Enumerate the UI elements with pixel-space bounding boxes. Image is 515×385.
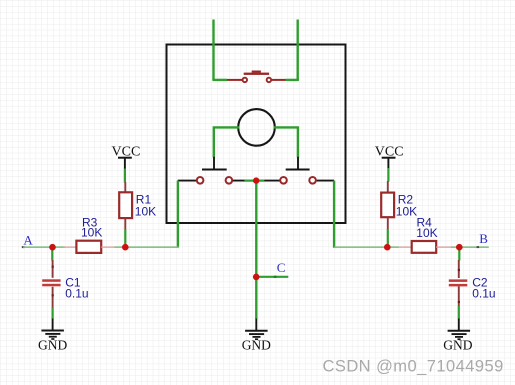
svg-text:0.1u: 0.1u (472, 286, 495, 300)
wire VCC to R1 (124, 169, 126, 183)
wire junction to encoder pin A (128, 246, 179, 248)
svg-text:GND: GND (443, 338, 472, 353)
svg-text:10K: 10K (396, 204, 417, 218)
wire junction to R3 (55, 246, 65, 248)
resistor R2 body (381, 193, 394, 218)
contact pin circle 4 (309, 177, 316, 184)
resistor R3 body (76, 241, 101, 253)
resistor R3 left pin (64, 246, 77, 248)
encoder shaft circle (238, 109, 275, 146)
resistor R4 right pin (436, 246, 451, 248)
wire junction to R4 (390, 246, 399, 248)
svg-text:GND: GND (242, 338, 271, 353)
ground right symbol (448, 330, 471, 332)
junction dot node C (253, 274, 260, 281)
resistor R4 left pin (399, 246, 412, 248)
push button plunger bar (244, 73, 269, 75)
wire R4 to junction (451, 246, 457, 248)
junction dot R2/R4 (384, 244, 391, 251)
wire top-right pin stub (297, 20, 299, 80)
junction dot R3/R1 (122, 244, 129, 251)
wire top-left pin stub (212, 20, 214, 80)
ground center pin (255, 319, 257, 331)
resistor R1 top pin (124, 182, 126, 192)
ground right pin (458, 319, 460, 331)
contact pin circle 3 (280, 177, 287, 184)
wire encoder pin B down (333, 181, 335, 248)
wire node C to GND (255, 277, 257, 319)
contact row right lead (317, 180, 334, 182)
wire C2 to GND (458, 306, 460, 319)
wire junction to C1 (51, 247, 53, 260)
svg-text:0.1u: 0.1u (65, 287, 88, 301)
wire segment at common node (244, 180, 264, 182)
resistor R3 right pin (101, 246, 115, 248)
capacitor C1 top pin (52, 260, 54, 278)
left wiper contact T (213, 157, 215, 170)
wire shaft to right wiper (274, 127, 298, 157)
wire A end tick (22, 246, 25, 248)
svg-text:10K: 10K (81, 226, 102, 240)
resistor R2 top pin (387, 181, 389, 193)
wire B end tick (477, 246, 480, 248)
ground left pin (52, 319, 54, 331)
svg-text:CSDN @m0_71044959: CSDN @m0_71044959 (323, 358, 504, 376)
encoder body outline (167, 45, 346, 224)
junction dot common contact (253, 177, 259, 183)
wire junction to C2 (458, 247, 460, 260)
resistor R2 bottom pin (387, 217, 389, 229)
capacitor C1 bottom pin (52, 287, 54, 308)
capacitor C1 plates (42, 279, 60, 282)
wire R3 to junction (115, 246, 123, 248)
svg-text:10K: 10K (135, 204, 156, 218)
wire C end tick (274, 276, 277, 278)
svg-text:GND: GND (38, 337, 67, 352)
push button right lead (272, 79, 286, 81)
capacitor C2 top pin (458, 260, 460, 278)
resistor R4 body (412, 241, 437, 253)
wire node C stub (256, 276, 288, 278)
power VCC left bar (118, 157, 132, 159)
capacitor C2 bottom pin (458, 286, 460, 306)
contact row left lead (178, 180, 197, 182)
resistor R1 bottom pin (124, 218, 126, 229)
svg-text:B: B (479, 231, 488, 246)
push button right contact circle (267, 78, 272, 83)
capacitor C2 plates (449, 279, 468, 282)
push button left contact circle (243, 78, 248, 83)
push button left lead wire (212, 79, 227, 81)
wire common pin C down (255, 181, 257, 277)
ground center symbol (245, 330, 268, 332)
junction dot A/C1 (49, 244, 56, 251)
wire VCC to R2 (387, 168, 389, 182)
push button plunger bump (252, 71, 261, 73)
capacitor C2 pin mark (458, 269, 460, 271)
wire rail to R2 junction (334, 246, 387, 248)
wire R1 to junction (124, 229, 126, 245)
svg-text:A: A (23, 233, 33, 248)
right wiper contact T (297, 157, 299, 170)
wire shaft to left wiper (214, 127, 239, 157)
wire R2 to junction (387, 229, 389, 245)
wire A to junction (23, 246, 50, 248)
contact pin circle 2 (226, 177, 233, 184)
contact pin circle 1 (197, 177, 204, 184)
wire encoder pin A down (177, 181, 179, 248)
contact row middle lead (233, 180, 280, 182)
svg-text:C: C (277, 260, 286, 275)
svg-text:10K: 10K (416, 226, 437, 240)
wire node B stub (462, 246, 489, 248)
capacitor C1 pin mark (52, 266, 54, 268)
resistor R1 body (119, 192, 132, 218)
push button left lead (227, 79, 242, 81)
push button right lead wire (286, 79, 299, 81)
power VCC right bar (382, 157, 396, 159)
ground left symbol (41, 330, 64, 332)
junction dot R4/C2 (456, 244, 463, 251)
wire C1 to GND (51, 308, 53, 320)
